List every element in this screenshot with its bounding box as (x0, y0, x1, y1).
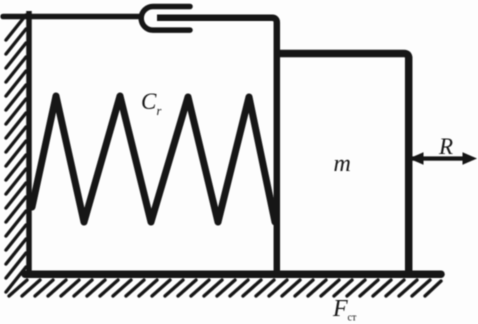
label Cr (141, 89, 162, 118)
svg-text:C: C (141, 89, 157, 114)
top wire from wall to fork (3, 14, 139, 20)
svg-text:R: R (438, 134, 453, 159)
svg-text:m: m (334, 151, 351, 177)
svg-text:F: F (332, 296, 348, 322)
ground hatching (9, 280, 441, 296)
svg-text:r: r (157, 104, 162, 118)
label F st (332, 296, 357, 324)
label m (334, 151, 351, 177)
mass block outline (277, 54, 409, 275)
fork clamp U (141, 7, 190, 31)
svg-text:ст: ст (348, 313, 357, 324)
arrow R double headed (409, 152, 477, 164)
inner wire from fork to box right edge (157, 18, 277, 276)
wall hatching (6, 15, 26, 292)
ground line (25, 270, 441, 278)
spring Cr zigzag (32, 96, 275, 222)
label R (438, 134, 453, 159)
wall vertical line (26, 11, 32, 276)
